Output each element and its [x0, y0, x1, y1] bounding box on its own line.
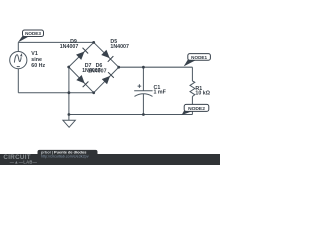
svg-text:NODE3: NODE3 [25, 31, 41, 36]
svg-text:60 Hz: 60 Hz [31, 63, 45, 69]
svg-text:NODE2: NODE2 [188, 106, 205, 112]
svg-text:http://circuitlab.com/c/e3k2pv: http://circuitlab.com/c/e3k2pv [41, 155, 89, 159]
svg-text:1N4007: 1N4007 [60, 44, 79, 50]
svg-text:—▲—LAB—: —▲—LAB— [10, 159, 38, 164]
svg-text:1N4007: 1N4007 [110, 44, 129, 50]
svg-text:sine: sine [31, 57, 42, 63]
svg-text:1N4007: 1N4007 [88, 68, 107, 74]
svg-text:V1: V1 [31, 51, 38, 57]
svg-text:NODE1: NODE1 [191, 55, 207, 60]
svg-text:10 kΩ: 10 kΩ [195, 91, 210, 97]
svg-text:1 mF: 1 mF [154, 90, 167, 96]
